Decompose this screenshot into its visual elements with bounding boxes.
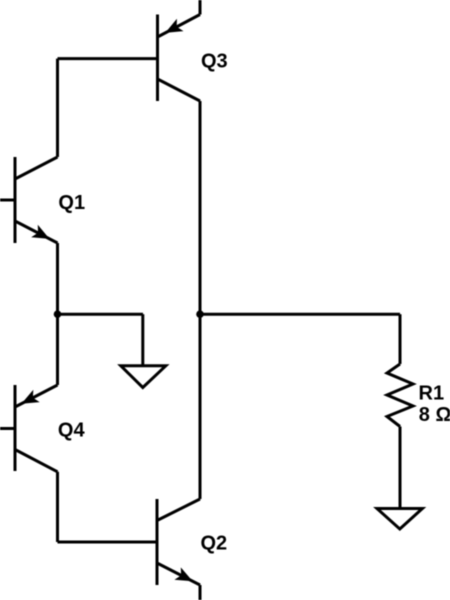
wire node A to ground stub (horizontal) bbox=[58, 313, 144, 316]
transistor Q4 bbox=[15, 385, 58, 472]
wire Q2 base bbox=[58, 541, 158, 544]
wire Q1 base to left edge bbox=[0, 199, 15, 202]
wire Q3 collector down to node B bbox=[199, 101, 202, 314]
transistor Q2 bbox=[157, 499, 200, 585]
wire Q4 collector down bbox=[56, 472, 59, 542]
wire R1 bottom to ground bbox=[399, 427, 402, 509]
node A junction bbox=[54, 310, 62, 318]
wire Q3 emitter up to top edge bbox=[199, 0, 202, 15]
ground (bottom right) bbox=[377, 509, 422, 530]
wire Q4 base to left edge bbox=[0, 427, 15, 430]
node B junction bbox=[196, 310, 204, 318]
svg-text:R1: R1 bbox=[419, 383, 445, 405]
transistor Q3 bbox=[158, 15, 201, 102]
svg-text:Q4: Q4 bbox=[58, 419, 86, 441]
wire ground stub (vertical) bbox=[141, 314, 144, 366]
wire Q2 emitter down to bottom edge bbox=[199, 585, 202, 600]
resistor R1 bbox=[387, 364, 413, 427]
svg-text:Q2: Q2 bbox=[201, 533, 228, 555]
wire Q3 base bbox=[58, 57, 158, 60]
svg-text:8 Ω: 8 Ω bbox=[419, 404, 450, 426]
wire Q2 collector up to node B bbox=[199, 314, 202, 499]
wire down to R1 top bbox=[399, 314, 402, 364]
svg-text:Q3: Q3 bbox=[201, 51, 228, 73]
wire Q1 emitter down to node A bbox=[56, 243, 59, 314]
svg-text:Q1: Q1 bbox=[58, 192, 85, 214]
wire Q3 base to Q1 collector (vertical) bbox=[56, 59, 59, 157]
wire node B to R1 (horizontal) bbox=[200, 313, 400, 316]
transistor Q1 bbox=[15, 157, 58, 243]
ground (middle) bbox=[121, 366, 166, 388]
wire node A down to Q4 emitter bbox=[56, 314, 59, 385]
